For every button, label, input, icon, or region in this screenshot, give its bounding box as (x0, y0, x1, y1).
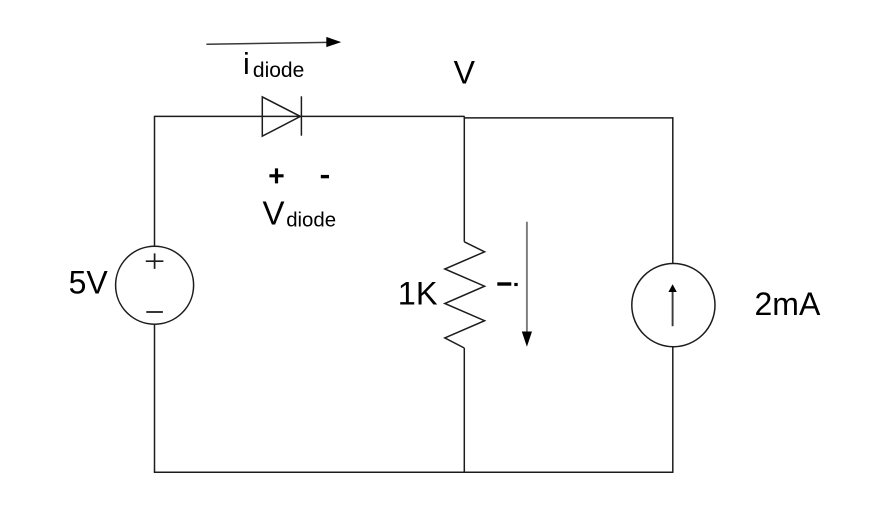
wire right vertical lower (current source bottom to bottom wire) (672, 347, 674, 472)
diode polarity minus sign (321, 175, 329, 178)
wire bottom horizontal (ground return) (154, 471, 674, 473)
svg-text:i: i (243, 47, 250, 81)
voltage source V1 plus mark (146, 253, 164, 269)
svg-text:2mA: 2mA (755, 286, 821, 322)
resistor R1 zigzag (445, 242, 485, 348)
wire left vertical lower (V1 minus terminal to bottom wire) (154, 324, 156, 472)
wire middle vertical upper (node V to resistor top) (463, 116, 465, 241)
wire top-left horizontal (source to diode to node V) (155, 115, 465, 117)
resistor polarity minus dash (497, 282, 511, 285)
svg-text:5V: 5V (69, 265, 109, 301)
current source I1 arrow shaft (672, 291, 674, 326)
voltage source V1 circle (116, 246, 194, 324)
wire middle vertical lower (resistor bottom to bottom wire) (463, 348, 465, 472)
svg-text:diode: diode (286, 210, 336, 232)
wire right vertical upper (top wire to current source top) (672, 117, 674, 263)
svg-text:V: V (263, 195, 285, 232)
svg-text:V: V (454, 55, 476, 91)
current source I1 circle (632, 264, 715, 347)
resistor current arrowhead (522, 332, 532, 347)
svg-text:1K: 1K (398, 275, 438, 311)
resistor polarity dot (514, 283, 517, 286)
diode polarity plus sign (269, 168, 283, 183)
wire left vertical upper (top wire to V1 plus terminal) (154, 116, 156, 247)
wire top-right horizontal (node V to current source) (464, 117, 674, 119)
diode D1 triangle (anode) (262, 97, 300, 136)
voltage source V1 minus mark (146, 311, 163, 313)
resistor current arrow shaft (526, 222, 528, 332)
diode D1 cathode bar (300, 96, 302, 135)
current direction arrow shaft (i_diode) (206, 42, 328, 44)
current direction arrowhead (i_diode) (326, 37, 341, 47)
svg-text:diode: diode (253, 59, 304, 82)
current source I1 arrowhead (668, 284, 676, 292)
